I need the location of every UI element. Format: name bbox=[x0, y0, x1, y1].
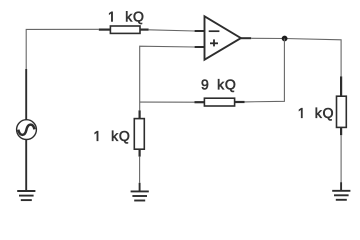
AC source V1 bbox=[17, 120, 37, 140]
resistor R3 1 kQ (vertical, to ground) bbox=[134, 110, 144, 156]
wire output to right corner bbox=[251, 38, 341, 76]
wire bbox=[26, 29, 99, 69]
op-amp plus symbol bbox=[210, 39, 218, 46]
label R3: 1 kQ bbox=[95, 131, 129, 144]
source V1 bottom pin bbox=[25, 139, 27, 190]
wire plus input branch bbox=[140, 46, 195, 110]
label R2: 9 kQ bbox=[202, 79, 235, 92]
ground (right) bbox=[332, 191, 350, 200]
label R1: 1 kQ bbox=[109, 11, 143, 24]
ground (left) bbox=[17, 191, 35, 200]
wire R3 to ground bbox=[139, 157, 141, 183]
resistor R1 1 kQ (horizontal, input) bbox=[99, 26, 149, 33]
op-amp output pin bbox=[241, 37, 251, 39]
ground stub (right) bbox=[340, 182, 342, 190]
ground (middle) bbox=[131, 191, 149, 200]
wire feedback drop bbox=[245, 39, 285, 102]
label R4: 1 kQ bbox=[299, 108, 333, 121]
wire R4 to ground bbox=[340, 135, 342, 182]
source V1 top pin bbox=[25, 69, 27, 120]
op-amp U1 plus input pin bbox=[195, 46, 205, 48]
resistor R2 9 kQ (feedback) bbox=[195, 98, 245, 106]
op-amp minus symbol bbox=[209, 30, 220, 32]
ground stub (middle) bbox=[139, 183, 141, 191]
wire R2 to plus node bbox=[140, 101, 195, 103]
op-amp U1 minus input pin bbox=[195, 30, 205, 32]
op-amp U1 bbox=[205, 16, 241, 59]
wire R1 to op-amp minus input bbox=[149, 30, 195, 31]
resistor R4 1 kQ (right, to ground) bbox=[337, 76, 347, 135]
junction dot (output node) bbox=[282, 36, 288, 42]
